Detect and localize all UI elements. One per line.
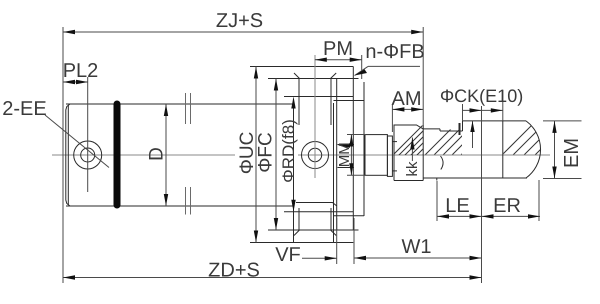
svg-text:n-ΦFB: n-ΦFB: [365, 41, 424, 63]
svg-text:VF: VF: [275, 244, 301, 266]
svg-text:LE: LE: [445, 195, 469, 217]
svg-text:2-EE: 2-EE: [2, 98, 46, 120]
svg-text:AM: AM: [391, 88, 421, 110]
svg-text:EM: EM: [561, 138, 583, 168]
svg-text:PM: PM: [323, 38, 353, 60]
svg-text:ΦCK(E10): ΦCK(E10): [440, 86, 523, 106]
svg-text:ΦRD(f8): ΦRD(f8): [279, 119, 298, 183]
svg-text:ZD+S: ZD+S: [208, 259, 260, 281]
svg-text:kk: kk: [404, 161, 421, 177]
svg-text:MM: MM: [336, 142, 353, 167]
svg-text:W1: W1: [401, 236, 431, 258]
svg-text:ER: ER: [493, 195, 521, 217]
svg-text:PL2: PL2: [63, 60, 99, 82]
svg-text:D: D: [147, 147, 168, 161]
svg-text:ΦFC: ΦFC: [256, 132, 277, 173]
svg-text:ZJ+S: ZJ+S: [216, 10, 263, 32]
